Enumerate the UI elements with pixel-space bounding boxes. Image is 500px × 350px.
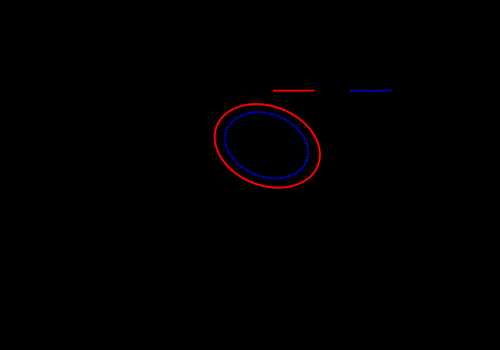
legend sample line (blue dotted) — [350, 90, 391, 92]
blue ellipse (inner, dotted) — [215, 101, 317, 190]
red ellipse (outer, solid) — [202, 89, 332, 202]
legend sample line (red solid) — [273, 90, 315, 92]
